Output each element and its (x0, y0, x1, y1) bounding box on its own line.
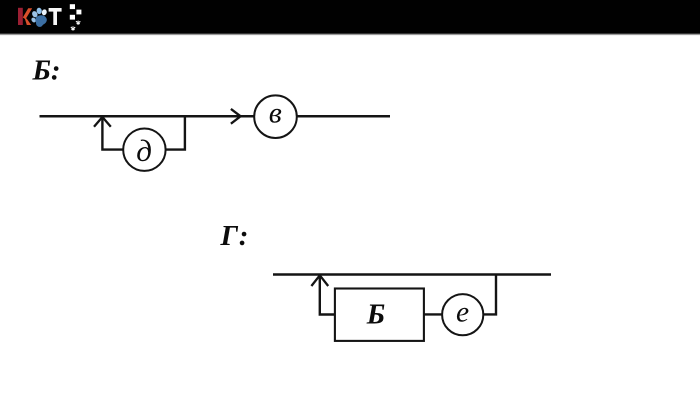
svg-text:д: д (136, 133, 152, 168)
node circle е (442, 294, 483, 335)
svg-text:Б:: Б: (32, 55, 61, 87)
logo pixel squares (70, 4, 82, 19)
wire: diagram 2 main horizontal line (273, 273, 551, 275)
wire: diagram 1 loop (down-across-up) (102, 116, 184, 149)
logo small paw prints (71, 21, 81, 31)
logo letter K (red) (18, 8, 32, 25)
logo letter T (white) (49, 8, 62, 25)
header bar (0, 0, 700, 36)
wire: diagram 2 left drop with feedback (320, 275, 335, 315)
svg-text:Г:: Г: (220, 220, 249, 252)
wire: rect to circle е (424, 313, 442, 315)
arrow up on diagram 2 loop (311, 275, 328, 286)
arrow up on loop entry (94, 117, 111, 127)
svg-text:Б: Б (366, 299, 385, 331)
node circle д (123, 129, 165, 171)
svg-text:в: в (269, 97, 282, 130)
arrow right on main line (231, 109, 241, 124)
node circle в (254, 95, 297, 138)
wire: diagram 1 main horizontal line (40, 115, 391, 118)
wire: circle е to riser (483, 275, 496, 315)
svg-text:е: е (456, 297, 469, 329)
box Б (nonterminal) (335, 289, 424, 341)
logo paw (blue) (30, 7, 47, 27)
